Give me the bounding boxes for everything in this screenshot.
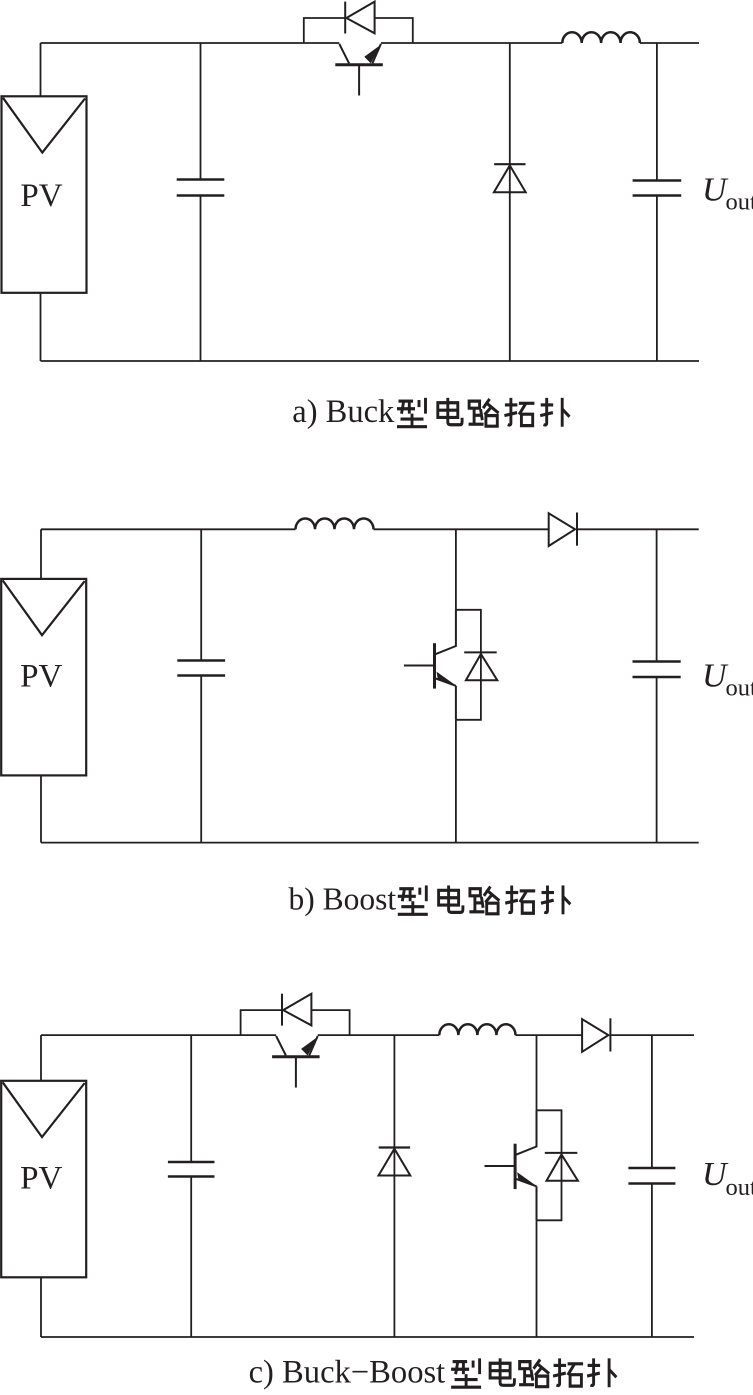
- PV panel PV1: [2, 96, 87, 292]
- wire (circuit a, bottom rail): [41, 360, 700, 362]
- wire (capacitor C1 bottom lead): [200, 197, 202, 362]
- wire (capacitor C4 top lead): [656, 529, 658, 660]
- wire (capacitor C5 top lead): [190, 1035, 192, 1161]
- wire (circuit c, IGBT branch bottom): [536, 1220, 538, 1337]
- wire (circuit c, top rail mid2): [516, 1034, 582, 1036]
- svg-text:out: out: [726, 188, 753, 215]
- wire (circuit c, IGBT branch top): [536, 1035, 538, 1110]
- wire (circuit b, PV bottom lead): [40, 775, 42, 842]
- inductor L1: [562, 32, 640, 43]
- wire (circuit c, diode D3 branch): [393, 1035, 395, 1337]
- transistor Q1 (IGBT, collector left, emitter right): [335, 44, 383, 96]
- capacitor C3: [177, 661, 225, 676]
- diode D3 (vertical, pointing up): [379, 1148, 411, 1176]
- node Uout label (circuit b): [702, 658, 753, 702]
- caption b: [289, 882, 571, 917]
- svg-text:PV: PV: [20, 1161, 62, 1197]
- wire (circuit c, PV top lead): [40, 1035, 42, 1081]
- svg-text:PV: PV: [20, 178, 62, 214]
- capacitor C6: [628, 1168, 675, 1184]
- wire (capacitor C2 bottom lead): [656, 197, 658, 362]
- wire (circuit c, top rail left): [41, 1034, 276, 1036]
- wire (circuit b, top rail left): [41, 528, 296, 530]
- diode D4 (on rail, pointing right): [582, 1018, 610, 1052]
- diode Q1D (antiparallel, cathode bar left): [345, 2, 374, 34]
- transistor Q3 (IGBT, collector left, emitter right): [272, 1036, 320, 1088]
- diode Q3D (antiparallel, cathode bar left): [282, 994, 311, 1026]
- wire (circuit b, bottom rail): [41, 842, 699, 844]
- wire (circuit b, IGBT branch top): [455, 529, 457, 610]
- wire (capacitor C1 top lead): [200, 43, 202, 179]
- wire (circuit a, PV bottom lead): [40, 293, 42, 361]
- transistor Q4 (IGBT, vertical): [485, 1110, 537, 1220]
- node Uout label (circuit a): [702, 172, 753, 216]
- svg-text:a) Buck: a) Buck: [292, 394, 395, 430]
- inductor L2: [296, 519, 374, 530]
- diode Q2D (antiparallel, cathode bar top): [464, 652, 497, 680]
- svg-text:PV: PV: [20, 659, 62, 695]
- wire (circuit b, PV top lead): [40, 529, 42, 579]
- wire (capacitor C6 bottom lead): [651, 1185, 653, 1338]
- caption a: [292, 394, 569, 430]
- svg-text:b) Boost: b) Boost: [289, 882, 397, 917]
- wire loop of antiparallel diode Q3D: [241, 1010, 350, 1035]
- wire (capacitor C3 top lead): [200, 529, 202, 659]
- caption c: [249, 1355, 617, 1391]
- wire (capacitor C4 bottom lead): [656, 678, 658, 843]
- wire (circuit c, top rail middle): [318, 1034, 440, 1036]
- diode D1 (vertical, pointing up): [494, 164, 526, 192]
- wire (circuit c, bottom rail): [41, 1336, 694, 1338]
- capacitor C2: [633, 181, 682, 196]
- wire (circuit b, IGBT branch bottom): [455, 720, 457, 843]
- wire (capacitor C5 bottom lead): [190, 1178, 192, 1338]
- wire (circuit c, top rail right): [611, 1034, 694, 1036]
- wire loop of antiparallel diode Q2D: [456, 610, 481, 720]
- wire (circuit a, diode D1 branch): [509, 43, 511, 361]
- transistor Q2 (IGBT, vertical): [404, 610, 456, 720]
- wire (capacitor C6 top lead): [651, 1035, 653, 1167]
- wire (capacitor C3 bottom lead): [200, 677, 202, 843]
- svg-text:out: out: [726, 674, 753, 701]
- PV panel PV2: [1, 579, 86, 776]
- wire (circuit b, top rail middle): [374, 528, 549, 530]
- node Uout label (circuit c): [702, 1156, 753, 1201]
- diode D2 (on rail, pointing right): [549, 513, 577, 547]
- svg-text:out: out: [726, 1174, 753, 1201]
- wire (circuit b, top rail right): [577, 528, 699, 530]
- PV panel PV3: [1, 1081, 86, 1278]
- wire loop of antiparallel diode Q4D: [537, 1110, 562, 1220]
- diode Q4D (antiparallel, cathode bar top): [545, 1153, 578, 1181]
- inductor L3: [439, 1024, 515, 1035]
- capacitor C5: [168, 1162, 215, 1177]
- wire (circuit a, top rail middle): [381, 42, 562, 44]
- wire (circuit a, PV top lead): [40, 43, 42, 96]
- wire (circuit c, PV bottom lead): [40, 1277, 42, 1337]
- svg-text:c) Buck−Boost: c) Buck−Boost: [249, 1355, 446, 1391]
- capacitor C1: [177, 180, 225, 196]
- wire (circuit a, top rail left): [41, 42, 340, 44]
- wire (circuit a, top rail right): [640, 42, 699, 44]
- capacitor C4: [633, 662, 681, 678]
- wire loop of antiparallel diode Q1D: [304, 18, 413, 43]
- wire (capacitor C2 top lead): [656, 43, 658, 180]
